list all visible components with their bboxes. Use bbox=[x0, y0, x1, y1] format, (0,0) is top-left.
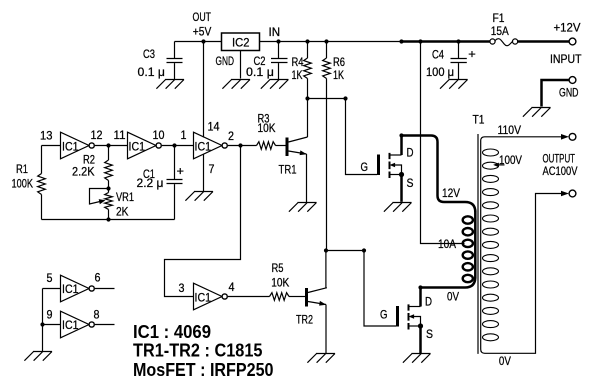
svg-text:12V: 12V bbox=[442, 186, 460, 200]
capacitor C4 bbox=[451, 42, 467, 80]
node pin2 output junction bbox=[238, 143, 242, 147]
svg-text:C4: C4 bbox=[432, 48, 444, 62]
transformer T1 primary spine bbox=[474, 211, 477, 279]
wire: 10A center-tap riser bbox=[421, 42, 465, 244]
terminal input GND bbox=[569, 77, 576, 84]
wire: gate1 drive bbox=[346, 99, 378, 175]
svg-text:12: 12 bbox=[91, 128, 103, 142]
svg-text:8: 8 bbox=[94, 308, 100, 322]
wire: input to IC1 pin 13 bbox=[42, 145, 61, 147]
ground under MOSFET1 source bbox=[384, 203, 412, 212]
fuse F1 bbox=[490, 39, 518, 46]
svg-text:IC1: IC1 bbox=[129, 140, 146, 154]
MOSFET Q1 (upper IRFP250) bbox=[377, 136, 404, 202]
svg-text:7: 7 bbox=[209, 162, 215, 176]
svg-text:2.2 μ: 2.2 μ bbox=[137, 176, 164, 190]
ground under TR2 bbox=[307, 354, 335, 363]
svg-text:0V: 0V bbox=[499, 354, 511, 368]
svg-text:1K: 1K bbox=[333, 68, 344, 82]
svg-text:100 μ: 100 μ bbox=[426, 65, 454, 79]
svg-text:IC1: IC1 bbox=[62, 140, 79, 154]
op-amp IC1 inverter B (11-10) bbox=[128, 132, 157, 159]
svg-text:T1: T1 bbox=[473, 113, 485, 127]
node drain2 junction bbox=[418, 285, 422, 289]
svg-text:F1: F1 bbox=[493, 11, 505, 25]
wire: pin2 node down and across to pin 3 bbox=[165, 146, 241, 297]
svg-text:10A: 10A bbox=[438, 237, 456, 251]
svg-text:D: D bbox=[407, 146, 414, 160]
ground at input GND bbox=[523, 108, 551, 117]
wire: pin2 output to R3 bbox=[228, 145, 257, 147]
svg-text:13: 13 bbox=[40, 129, 53, 143]
svg-text:1: 1 bbox=[181, 128, 187, 142]
tap 100V arrow bbox=[493, 163, 504, 168]
svg-text:R1: R1 bbox=[16, 162, 28, 176]
node TR2 collector junction bbox=[324, 248, 328, 252]
resistor R2 bbox=[105, 146, 113, 189]
svg-text:11: 11 bbox=[114, 128, 126, 142]
svg-text:+: + bbox=[177, 164, 185, 178]
node IN junction bbox=[276, 39, 280, 43]
svg-text:5: 5 bbox=[47, 271, 53, 285]
svg-text:9: 9 bbox=[47, 308, 53, 322]
op-amp IC1 inverter F (9-8) bbox=[61, 311, 90, 338]
svg-text:+5V: +5V bbox=[193, 25, 212, 39]
svg-text:IC1 : 4069: IC1 : 4069 bbox=[133, 322, 211, 342]
svg-text:OUT: OUT bbox=[193, 10, 212, 24]
svg-text:10: 10 bbox=[153, 128, 165, 142]
transformer T1 secondary loops bbox=[483, 149, 499, 341]
svg-text:TR2: TR2 bbox=[296, 313, 313, 327]
wire: +5V node down to IC1 pin 14 bbox=[203, 42, 205, 138]
node gate2 drop top bbox=[362, 248, 366, 252]
svg-text:+: + bbox=[468, 47, 476, 61]
svg-text:10K: 10K bbox=[258, 121, 276, 135]
node VR1 bottom junction bbox=[106, 217, 110, 221]
wire: inverter F output stub bbox=[95, 324, 115, 326]
wire: heavy 0V primary return bbox=[421, 277, 476, 288]
wire: TR2 collector to gate2 drop bbox=[326, 250, 364, 252]
node R2/VR1 wiper junction bbox=[106, 186, 110, 190]
node C4 top bbox=[456, 39, 460, 43]
transformer T1 core left line bbox=[477, 134, 479, 354]
wire: inverter E output stub bbox=[95, 288, 115, 290]
node drain1 junction bbox=[399, 133, 403, 137]
node TR1 collector junction bbox=[305, 96, 309, 100]
svg-text:TR1-TR2 : C1815: TR1-TR2 : C1815 bbox=[133, 341, 263, 361]
svg-text:TR1: TR1 bbox=[279, 163, 297, 177]
svg-text:110V: 110V bbox=[498, 123, 522, 137]
op-amp IC1 inverter D (3-4) bbox=[194, 283, 223, 310]
svg-text:R4: R4 bbox=[292, 55, 304, 69]
wire: heavy +12V rail to fuse bbox=[402, 40, 490, 43]
svg-text:+12V: +12V bbox=[554, 21, 581, 35]
svg-text:1K: 1K bbox=[292, 68, 303, 82]
ground under IC1 pin 7 bbox=[185, 192, 213, 201]
wire: inverter B output to inverter C input bbox=[162, 145, 194, 147]
resistor R6 bbox=[323, 42, 331, 251]
potentiometer VR1 bbox=[90, 189, 113, 220]
svg-text:15A: 15A bbox=[491, 24, 509, 38]
svg-text:R5: R5 bbox=[272, 261, 284, 275]
wire: IC1 pin 7 to ground bbox=[203, 155, 205, 192]
svg-text:VR1: VR1 bbox=[116, 190, 134, 204]
node pin10 junction bbox=[172, 143, 176, 147]
svg-text:GND: GND bbox=[559, 86, 579, 100]
wire: inverter D output to R5 bbox=[228, 296, 270, 298]
svg-text:6: 6 bbox=[95, 271, 101, 285]
node gate1 drop top bbox=[343, 96, 347, 100]
resistor R3 bbox=[257, 142, 286, 150]
ground under TR1 bbox=[289, 203, 317, 212]
wire: oscillator feedback bottom rail bbox=[42, 219, 175, 221]
svg-text:IC1: IC1 bbox=[62, 318, 79, 332]
svg-text:AC100V: AC100V bbox=[543, 164, 578, 178]
op-amp IC1 inverter C (1-2) bbox=[194, 132, 223, 159]
wire: IC2 GND pin bbox=[240, 51, 242, 79]
transformer T1 secondary winding lead path bbox=[481, 137, 562, 353]
ground under tied inputs bbox=[24, 352, 52, 361]
wire: heavy 12V primary feed bbox=[402, 136, 476, 213]
wire: rail IC2 output to drain1 riser node bbox=[260, 41, 402, 43]
svg-text:3: 3 bbox=[179, 281, 185, 295]
capacitor C2 bbox=[271, 42, 288, 80]
wire: TR1 collector to gate1 drop bbox=[308, 98, 346, 100]
wire: heavy rail fuse to +12V terminal bbox=[518, 40, 569, 43]
svg-text:R6: R6 bbox=[333, 55, 345, 69]
svg-text:0V: 0V bbox=[447, 290, 459, 304]
svg-text:2K: 2K bbox=[116, 205, 129, 219]
ground under C4 bbox=[440, 80, 468, 89]
node drain1 riser top bbox=[399, 39, 403, 43]
wire: input GND lead bbox=[542, 80, 570, 107]
svg-text:4: 4 bbox=[229, 280, 235, 294]
node 10A riser top bbox=[418, 39, 422, 43]
transistor TR2 bbox=[305, 251, 327, 354]
svg-text:14: 14 bbox=[208, 120, 220, 134]
node tied inputs junction bbox=[40, 322, 44, 326]
svg-text:10K: 10K bbox=[271, 276, 289, 290]
svg-text:D: D bbox=[425, 295, 432, 309]
svg-text:IC1: IC1 bbox=[62, 282, 79, 296]
resistor R4 bbox=[304, 42, 312, 99]
svg-text:INPUT: INPUT bbox=[550, 52, 582, 66]
svg-text:G: G bbox=[361, 160, 369, 174]
svg-text:S: S bbox=[426, 327, 433, 341]
wire: inverter F input tie bbox=[43, 324, 61, 326]
svg-text:0.1 μ: 0.1 μ bbox=[246, 65, 274, 79]
svg-text:2: 2 bbox=[228, 129, 234, 143]
ground under IC2 bbox=[222, 80, 250, 89]
svg-text:IC2: IC2 bbox=[232, 36, 250, 50]
svg-text:2.2K: 2.2K bbox=[72, 165, 95, 179]
svg-text:100K: 100K bbox=[12, 177, 34, 191]
ground under C3 bbox=[156, 80, 184, 89]
wire: tied inputs down to ground bbox=[42, 289, 44, 352]
svg-text:IC1: IC1 bbox=[195, 140, 212, 154]
node R4 top bbox=[305, 39, 309, 43]
resistor R1 bbox=[38, 146, 46, 220]
wire: +5V rail from C3 to IC2 input bbox=[175, 41, 222, 43]
capacitor C3 bbox=[167, 42, 183, 80]
resistor R5 bbox=[270, 293, 306, 301]
regulator IC2 box bbox=[222, 33, 260, 51]
terminal output 110V bbox=[561, 133, 576, 140]
svg-text:GND: GND bbox=[216, 54, 235, 68]
capacitor C1 bbox=[167, 146, 183, 220]
transformer T1 primary loops bbox=[463, 216, 473, 282]
svg-text:0.1 μ: 0.1 μ bbox=[138, 65, 166, 79]
svg-text:C3: C3 bbox=[143, 47, 155, 61]
node pin12 junction bbox=[106, 143, 110, 147]
svg-text:S: S bbox=[407, 176, 414, 190]
terminal output 0V bbox=[561, 190, 576, 197]
MOSFET Q2 (lower IRFP250) bbox=[396, 288, 423, 354]
svg-text:IN: IN bbox=[269, 25, 281, 39]
op-amp IC1 inverter E (5-6) bbox=[61, 275, 90, 302]
wire: inverter E input tie bbox=[43, 288, 61, 290]
node +5V junction bbox=[201, 39, 205, 43]
ground under MOSFET2 source bbox=[403, 354, 431, 363]
svg-text:G: G bbox=[380, 308, 388, 322]
svg-text:IC1: IC1 bbox=[195, 291, 212, 305]
wire: inverter A output to inverter B input bbox=[95, 145, 128, 147]
svg-text:MosFET : IRFP250: MosFET : IRFP250 bbox=[133, 360, 274, 380]
node R6 top bbox=[324, 39, 328, 43]
ground under C2 bbox=[261, 80, 289, 89]
svg-text:100V: 100V bbox=[499, 153, 522, 167]
transistor TR1 bbox=[286, 99, 308, 203]
wire: gate2 drive bbox=[364, 251, 396, 327]
terminal +12V bbox=[569, 38, 576, 45]
op-amp IC1 inverter A (13-12) bbox=[61, 132, 90, 159]
